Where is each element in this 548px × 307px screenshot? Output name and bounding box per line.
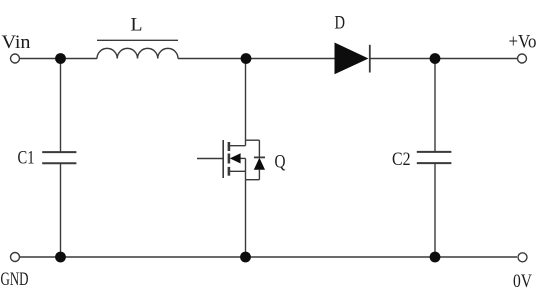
svg-text:Vin: Vin	[2, 32, 32, 53]
svg-text:C2: C2	[392, 149, 411, 170]
svg-text:D: D	[335, 13, 346, 34]
svg-text:C1: C1	[18, 148, 35, 169]
svg-text:0V: 0V	[513, 271, 532, 292]
svg-text:+Vo: +Vo	[509, 32, 537, 53]
svg-text:Q: Q	[275, 152, 286, 173]
svg-text:GND: GND	[1, 269, 29, 290]
svg-text:L: L	[131, 15, 143, 36]
